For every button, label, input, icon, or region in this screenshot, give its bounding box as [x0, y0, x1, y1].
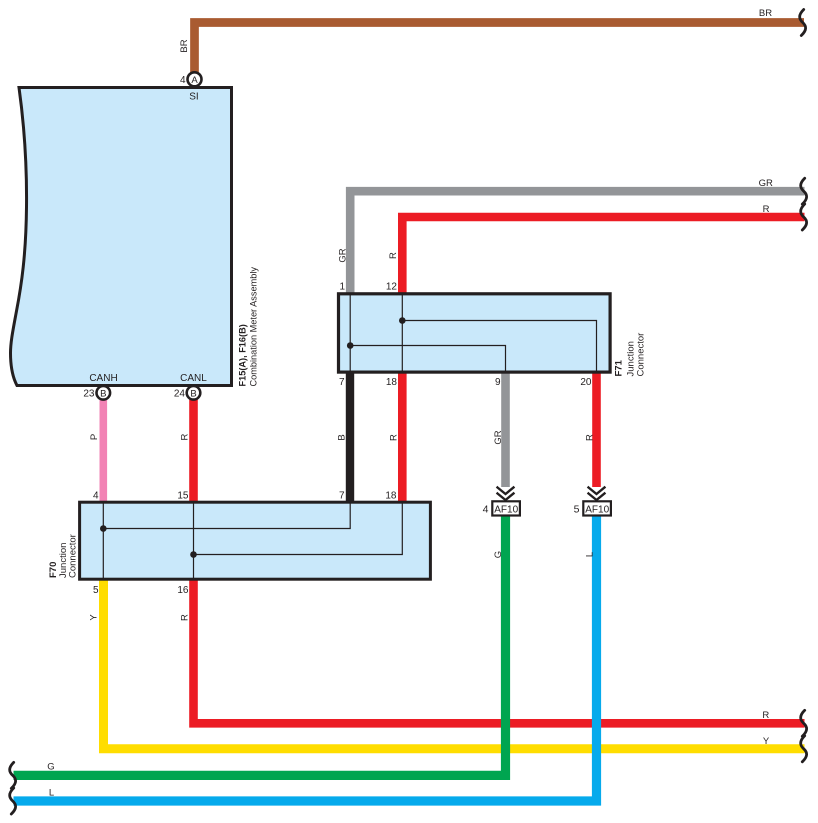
svg-text:7: 7	[339, 377, 345, 388]
svg-text:Connector: Connector	[636, 333, 647, 377]
svg-text:1: 1	[339, 282, 345, 293]
svg-text:R: R	[389, 434, 400, 441]
svg-text:R: R	[762, 710, 769, 721]
svg-text:L: L	[585, 552, 596, 557]
svg-text:18: 18	[386, 377, 398, 388]
svg-text:4: 4	[93, 491, 99, 502]
svg-text:F71: F71	[614, 359, 625, 376]
svg-text:7: 7	[339, 491, 345, 502]
svg-text:Combination Meter Assembly: Combination Meter Assembly	[249, 267, 259, 387]
svg-text:G: G	[47, 762, 54, 773]
svg-text:B: B	[337, 434, 348, 440]
svg-text:L: L	[49, 788, 54, 799]
svg-text:P: P	[89, 434, 100, 440]
svg-text:R: R	[585, 434, 596, 441]
svg-text:GR: GR	[338, 248, 349, 262]
svg-text:Connector: Connector	[68, 534, 79, 578]
svg-text:9: 9	[495, 377, 501, 388]
svg-text:5: 5	[93, 585, 99, 596]
svg-text:15: 15	[177, 491, 189, 502]
svg-text:GR: GR	[759, 178, 773, 189]
svg-text:4: 4	[180, 75, 186, 86]
svg-text:Y: Y	[763, 736, 770, 747]
svg-text:AF10: AF10	[585, 505, 609, 516]
svg-text:18: 18	[385, 491, 397, 502]
svg-text:BR: BR	[759, 8, 772, 19]
svg-text:16: 16	[177, 585, 189, 596]
svg-text:R: R	[180, 614, 191, 621]
svg-text:R: R	[388, 252, 399, 259]
svg-text:AF10: AF10	[494, 505, 518, 516]
svg-text:5: 5	[574, 504, 580, 516]
svg-text:B: B	[100, 388, 106, 399]
svg-text:R: R	[180, 433, 191, 440]
svg-text:12: 12	[386, 282, 398, 293]
svg-text:SI: SI	[189, 92, 198, 103]
svg-text:CANL: CANL	[180, 373, 207, 384]
svg-text:F15(A), F16(B): F15(A), F16(B)	[238, 324, 248, 386]
svg-text:24: 24	[174, 388, 186, 399]
svg-text:GR: GR	[493, 430, 504, 444]
svg-text:B: B	[190, 388, 196, 399]
svg-text:23: 23	[83, 388, 95, 399]
svg-text:20: 20	[580, 377, 592, 388]
svg-text:G: G	[493, 551, 504, 558]
svg-text:4: 4	[483, 504, 489, 516]
svg-text:A: A	[191, 75, 198, 86]
svg-text:BR: BR	[179, 39, 190, 52]
svg-text:R: R	[763, 204, 770, 215]
svg-text:Y: Y	[89, 614, 100, 621]
svg-text:CANH: CANH	[89, 373, 117, 384]
